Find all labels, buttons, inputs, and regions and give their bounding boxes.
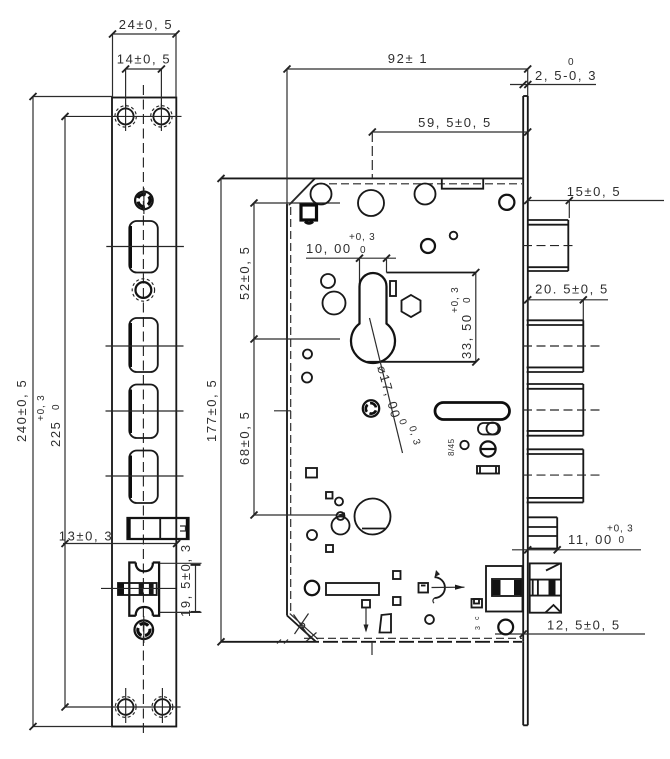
svg-text:+0, 3: +0, 3 bbox=[36, 394, 47, 421]
deadbolt side view middle box bbox=[523, 384, 603, 436]
dimension 19,5±0,3 bbox=[160, 543, 202, 617]
dimension 240±0,5 bbox=[14, 93, 112, 730]
small circle right of trapezoid bbox=[425, 615, 434, 624]
svg-text:68±0, 5: 68±0, 5 bbox=[237, 411, 252, 465]
small square mid-left bbox=[306, 468, 317, 478]
body top inner dashed edge bbox=[317, 183, 522, 185]
small vertical slot right of keyhole bbox=[390, 281, 396, 296]
rotation symbol arc with arrows bbox=[432, 570, 465, 603]
phillips hole center (spindle) bbox=[362, 400, 379, 418]
svg-text:15±0, 5: 15±0, 5 bbox=[567, 184, 621, 199]
top edge tab bbox=[442, 178, 483, 188]
bottom screw hole right bbox=[152, 688, 173, 723]
body bottom-left chamfer bbox=[287, 616, 316, 642]
deadbolt cross pin (hatched) bbox=[101, 583, 176, 595]
hole top row middle bbox=[358, 190, 384, 216]
svg-text:0: 0 bbox=[619, 535, 625, 546]
dimension 177±0,5 bbox=[204, 175, 225, 645]
dimension 52±0,5 bbox=[237, 200, 340, 343]
svg-text:240±0, 5: 240±0, 5 bbox=[14, 379, 29, 442]
svg-text:13±0, 3: 13±0, 3 bbox=[59, 529, 113, 544]
small square with leader arrow bbox=[362, 600, 372, 655]
body top-left chamfer bbox=[290, 178, 315, 204]
threaded hole upper (phillips) bbox=[135, 188, 153, 214]
long rectangle bottom bbox=[326, 583, 379, 595]
faceplate outline bbox=[112, 98, 176, 727]
short reference tick at 411 bbox=[274, 410, 291, 412]
svg-text:10, 00: 10, 00 bbox=[306, 241, 352, 256]
top screw hole right bbox=[151, 104, 172, 132]
small thick circle upper right bbox=[421, 239, 435, 253]
threaded hole lower (phillips) bbox=[134, 616, 153, 643]
dimension 92±1 bbox=[284, 51, 532, 205]
dimension 14±0,5 bbox=[117, 52, 171, 109]
hex nut top right bbox=[499, 195, 514, 210]
body bottom edge (extension + dashed) bbox=[221, 641, 304, 643]
svg-text:0: 0 bbox=[462, 297, 473, 303]
small squares right pair bbox=[393, 571, 401, 579]
small circle lower-left 2 bbox=[307, 530, 317, 540]
faceplate edge-on strip bbox=[523, 96, 528, 725]
svg-text:92± 1: 92± 1 bbox=[388, 51, 428, 66]
small notched square left of slider bbox=[472, 599, 483, 608]
svg-text:19, 5±0, 3: 19, 5±0, 3 bbox=[178, 543, 193, 617]
slider assembly box bbox=[486, 566, 523, 612]
threaded double circle bbox=[132, 279, 154, 301]
latch bolt side view bbox=[523, 220, 576, 271]
medium circle left of keyhole bbox=[323, 292, 346, 315]
circle with bar bbox=[480, 441, 495, 456]
body bottom inner dashed edge bbox=[304, 637, 522, 639]
corner X mark bbox=[294, 614, 317, 642]
hole top row right bbox=[415, 184, 436, 205]
rotation symbol square bbox=[419, 583, 429, 593]
dimension 24±0,5 bbox=[109, 17, 180, 97]
dimension 12,5±0,5 bbox=[495, 618, 645, 638]
auxiliary bolt box (11mm) bbox=[528, 517, 557, 548]
svg-text:59, 5±0, 5: 59, 5±0, 5 bbox=[418, 115, 492, 130]
small circle pair mid-left bbox=[303, 350, 312, 359]
cutout slot 1 bbox=[106, 221, 184, 273]
top screw hole left bbox=[115, 104, 136, 132]
medium circle lower-left bbox=[332, 517, 350, 535]
body left inner dashed edge bbox=[290, 207, 292, 612]
svg-text:3: 3 bbox=[475, 626, 482, 630]
small square lower-left bbox=[326, 545, 333, 552]
faceplate vertical centerline bbox=[142, 85, 144, 734]
svg-text:177±0, 5: 177±0, 5 bbox=[204, 379, 219, 442]
bottom screw hole left bbox=[115, 688, 136, 723]
keyhole (euro profile) bbox=[351, 273, 395, 363]
thick square hole top-left bbox=[301, 205, 317, 223]
deadbolt side view lower box bbox=[523, 449, 603, 502]
svg-text:0: 0 bbox=[568, 57, 574, 68]
dimension 225 +0,3/0 bbox=[36, 113, 69, 711]
svg-text:52±0, 5: 52±0, 5 bbox=[237, 246, 252, 300]
latch bolt front bbox=[128, 518, 189, 539]
svg-text:2, 5-0, 3: 2, 5-0, 3 bbox=[535, 68, 597, 83]
bottom snib bolt side view bbox=[530, 563, 561, 612]
dimension 13±0,3 reference line bbox=[59, 529, 180, 548]
svg-text:+0, 3: +0, 3 bbox=[607, 524, 634, 535]
tiny circle upper right bbox=[450, 232, 458, 240]
svg-text:+0, 3: +0, 3 bbox=[349, 232, 376, 243]
hole top row left bbox=[311, 184, 332, 205]
svg-text:20. 5±0, 5: 20. 5±0, 5 bbox=[535, 282, 609, 297]
small slot with end ticks bbox=[477, 466, 499, 474]
long slot (thick) bbox=[435, 403, 510, 420]
dimension 68±0,5 bbox=[237, 339, 345, 519]
big circle lower (follower) bbox=[355, 499, 391, 535]
dimension 10,00 +0,3/0 bbox=[306, 232, 396, 294]
svg-text:33, 50: 33, 50 bbox=[459, 313, 474, 359]
cutout slot 3 bbox=[106, 385, 184, 439]
cutout slot 4 bbox=[106, 451, 184, 504]
dimension 2,5 0/-0,3 bbox=[510, 57, 597, 88]
bottom screw centerline horizontal bbox=[65, 706, 181, 708]
small capsule below slot bbox=[478, 423, 500, 435]
svg-text:0: 0 bbox=[51, 404, 62, 410]
svg-text:24±0, 5: 24±0, 5 bbox=[119, 17, 173, 32]
hexagon hole right of keyhole bbox=[402, 295, 421, 317]
svg-text:0: 0 bbox=[360, 245, 366, 256]
body left edge bbox=[286, 204, 288, 616]
dimension 15±0,5 bbox=[524, 184, 664, 218]
deadbolt side view upper box bbox=[523, 300, 603, 372]
dimension 11,00 +0,3/0 bbox=[512, 524, 641, 554]
small circle left of keyhole bbox=[321, 274, 335, 288]
dimension 33,50 +0,3/0 bbox=[367, 269, 479, 366]
cutout slot 2 bbox=[106, 318, 184, 372]
body top edge bbox=[221, 177, 523, 179]
svg-text:12, 5±0, 5: 12, 5±0, 5 bbox=[547, 618, 621, 633]
svg-text:8/45: 8/45 bbox=[447, 438, 456, 456]
hex circle bottom right bbox=[498, 620, 513, 635]
body right edge bbox=[522, 178, 524, 641]
tiny circle below slot bbox=[460, 441, 468, 449]
svg-text:14±0, 5: 14±0, 5 bbox=[117, 52, 171, 67]
svg-text:225: 225 bbox=[48, 421, 63, 448]
svg-text:c: c bbox=[474, 616, 481, 620]
deadbolt front (spool) bbox=[129, 563, 159, 616]
dimension 59,5±0,5 bbox=[369, 115, 531, 178]
diameter 17 leader line bbox=[370, 318, 403, 453]
svg-text:+0, 3: +0, 3 bbox=[450, 286, 461, 313]
diameter 17 text bbox=[374, 364, 422, 447]
top screw centerline horizontal bbox=[65, 115, 182, 117]
small trapezoid bottom bbox=[380, 614, 392, 633]
hex circle bottom-left bbox=[305, 581, 319, 595]
dimension 20,5±0,5 bbox=[524, 282, 609, 304]
small square above pivot bbox=[326, 492, 333, 499]
tiny pivot circle at leader end bbox=[337, 512, 345, 520]
tiny circle above pivot bbox=[335, 498, 343, 506]
